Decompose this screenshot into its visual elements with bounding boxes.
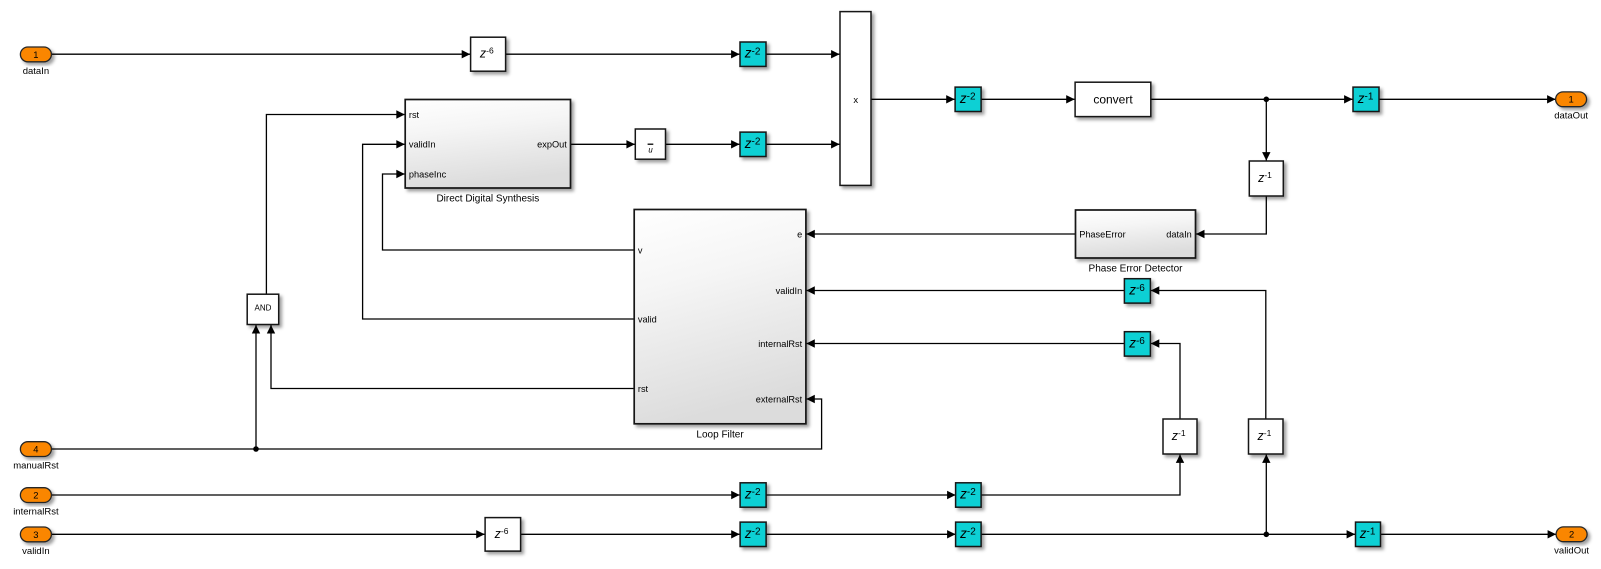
wire internalRst to z-2 d [51,494,739,496]
svg-text:expOut: expOut [537,140,567,150]
wire z-2 d to z-2 e [766,494,956,496]
delay block Delay1 vert z^-1 [1249,161,1283,196]
delay block z-2 g z^-2 [956,522,982,546]
port 1 dataOut [1556,92,1587,107]
wire AND out to DDS rst [266,115,404,295]
wire z-6 c1 to LoopFilter validIn [806,290,1124,292]
svg-text:phaseInc: phaseInc [409,169,447,179]
wire z-2 f to z-2 g [766,533,956,535]
product block X [840,12,871,186]
svg-text:v: v [638,245,643,255]
delay block z-6 c1 z^-6 [1124,279,1150,303]
wire conj to z-2 b [666,143,740,145]
wire LoopFilter v to DDS phaseInc [383,174,635,250]
wire z-1 w1 to z-6 c2 [1151,344,1180,420]
port 2 validOut [1556,527,1587,542]
wire dataIn to Delay6 top [51,53,470,55]
wire manualRst branch to AND [255,325,257,449]
junction node on wire z-2 g to z-1 b [1264,532,1270,538]
delay block z-2 d z^-2 [740,483,766,507]
wire branch down to Delay1 vert [1265,99,1267,160]
wire z-2 e up to z-1 w1 [981,454,1180,495]
junction node on wire manualRst trunk to LoopFilter externalRst [253,446,259,452]
wire z-2 g to z-1 b [981,533,1355,535]
delay block Delay6 top z^-6 [471,37,506,71]
svg-text:PhaseError: PhaseError [1079,229,1125,239]
svg-text:AND: AND [255,304,272,313]
svg-text:Direct Digital Synthesis: Direct Digital Synthesis [436,194,539,205]
port 3 validIn [20,527,51,542]
svg-text:4: 4 [33,444,38,455]
svg-text:3: 3 [33,529,38,540]
svg-text:dataIn: dataIn [23,66,49,77]
delay block Delay6 bottom z^-6 [485,518,520,552]
wire z-1 w2 to z-6 c1 [1151,291,1266,420]
svg-text:Phase Error Detector: Phase Error Detector [1089,264,1184,275]
wire Delay6 bottom to z-2 f [521,533,740,535]
wire DDS expOut to conj [571,143,635,145]
wire z-2 b to Product [766,143,840,145]
wire LoopFilter rst to AND [271,325,634,389]
svg-text:2: 2 [33,490,38,501]
svg-text:internalRst: internalRst [13,507,59,518]
svg-text:validIn: validIn [776,286,803,296]
svg-text:u: u [648,146,653,155]
delay block z-2 c z^-2 [955,87,981,111]
svg-text:dataIn: dataIn [1166,229,1192,239]
delay block z-2 b z^-2 [740,132,766,156]
delay block z-1 b z^-1 [1356,522,1381,546]
svg-text:1: 1 [1568,94,1573,105]
wire convert to z-1 a [1151,98,1353,100]
svg-text:convert: convert [1093,93,1133,107]
wire PED PhaseError to LoopFilter e [806,233,1075,235]
wire z-2 c to convert [981,98,1075,100]
convert block [1075,82,1151,116]
svg-text:Loop Filter: Loop Filter [696,429,744,440]
wire validIn to Delay6 bottom [51,533,484,535]
delay block z-1 a z^-1 [1353,87,1379,111]
wire Delay1 vert to PED dataIn [1196,196,1266,234]
svg-text:rst: rst [638,384,649,394]
svg-text:validIn: validIn [409,140,436,150]
svg-text:valid: valid [638,314,657,324]
delay block z-1 w2 z^-1 [1249,419,1284,454]
svg-text:externalRst: externalRst [756,394,803,404]
svg-text:internalRst: internalRst [758,339,802,349]
port 4 manualRst [20,442,51,457]
svg-text:dataOut: dataOut [1554,111,1588,122]
svg-text:x: x [853,95,858,106]
wire z-6 c2 to LoopFilter internalRst [806,343,1124,345]
svg-text:validOut: validOut [1554,546,1589,557]
svg-text:e: e [797,229,802,239]
delay block z-2 e z^-2 [956,483,982,507]
port 1 dataIn [20,47,51,62]
subsystem Direct Digital Synthesis [405,100,570,189]
svg-text:validIn: validIn [22,546,49,557]
wire LoopFilter valid to DDS validIn [363,144,635,319]
junction node on wire convert to z-1 a [1264,97,1270,103]
wire z-1 a to dataOut [1379,98,1556,100]
wire z-1 b to validOut [1380,533,1556,535]
wire Delay6 top to z-2 a [506,53,740,55]
subsystem Phase Error Detector [1076,210,1196,258]
wire Product to z-2 c [871,98,955,100]
delay block z-1 w1 z^-1 [1163,419,1197,454]
wire manualRst trunk to LoopFilter externalRst [51,399,821,449]
port 2 internalRst [20,488,51,503]
subsystem Loop Filter [634,210,806,424]
svg-text:manualRst: manualRst [13,461,59,472]
delay block z-2 f z^-2 [740,522,766,546]
AND logic block [247,294,279,324]
conjugate block u-bar [635,129,665,159]
delay block z-6 c2 z^-6 [1124,332,1150,356]
wire z-2 a to Product [766,53,840,55]
svg-text:2: 2 [1569,529,1574,540]
svg-text:1: 1 [33,49,38,60]
delay block z-2 a z^-2 [740,42,766,66]
svg-text:rst: rst [409,110,420,120]
wire branch up to z-1 w2 [1265,454,1267,534]
